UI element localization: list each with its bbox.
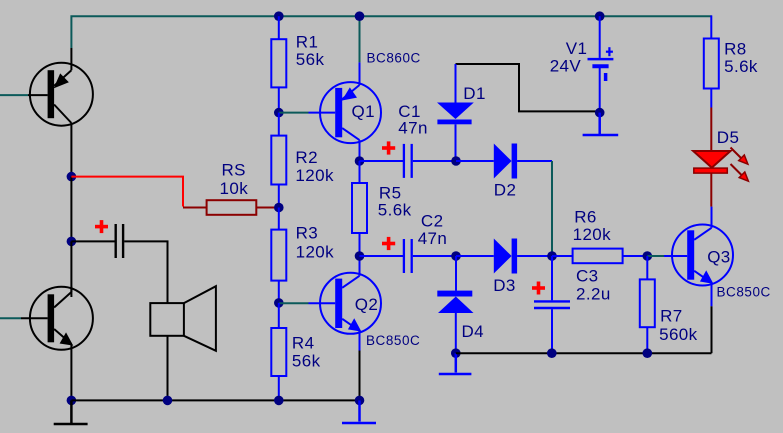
wire cap to speaker (black) bbox=[124, 241, 167, 303]
LED D5 (red/maroon) bbox=[693, 148, 748, 182]
svg-text:5.6k: 5.6k bbox=[378, 201, 412, 220]
wire V1 minus to D1 (black) bbox=[456, 64, 600, 111]
svg-text:24V: 24V bbox=[550, 57, 582, 76]
wire Q2 base (teal) bbox=[279, 302, 309, 304]
polarity plus of C3 (red) bbox=[532, 282, 545, 295]
polarity plus of coupling cap (red) bbox=[95, 220, 108, 233]
svg-text:47n: 47n bbox=[418, 229, 448, 248]
transistor Q2 (NPN, blue) bbox=[309, 256, 382, 351]
svg-text:120k: 120k bbox=[573, 225, 612, 244]
svg-text:C3: C3 bbox=[576, 266, 599, 285]
wire bottom-left ground bus (black) bbox=[71, 399, 359, 401]
wire Q2 emitter to ground bus (black) bbox=[359, 351, 361, 401]
svg-text:Q1: Q1 bbox=[352, 102, 375, 121]
junction R6 / R7 / Q3 base bbox=[643, 251, 653, 261]
capacitor C3 2.2u (blue) bbox=[534, 256, 570, 353]
diode D2 (blue, pointing right) bbox=[494, 144, 517, 179]
svg-text:47n: 47n bbox=[398, 119, 428, 138]
junction C1 / D1 / D2 bbox=[451, 156, 461, 166]
svg-text:R8: R8 bbox=[724, 39, 747, 58]
junction top rail / V1 bbox=[595, 11, 605, 21]
wire Q3 emitter to ground bus (black) bbox=[711, 306, 713, 353]
wire D5 to Q3 collector (maroon) bbox=[710, 173, 712, 207]
svg-text:V1: V1 bbox=[566, 39, 588, 58]
capacitor (electrolytic, black) between T1/T2 node and speaker bbox=[116, 224, 123, 258]
resistor R3 120k (blue) bbox=[271, 208, 286, 303]
svg-text:BC850C: BC850C bbox=[366, 333, 420, 348]
wire Q1 emitter to top rail (teal) bbox=[359, 16, 361, 62]
junction node T2 emitter / ground bus bbox=[67, 396, 77, 406]
junction node T1 collector / red tap bbox=[67, 172, 77, 182]
ground symbol at Q2 emitter (blue) bbox=[342, 400, 376, 423]
svg-text:R1: R1 bbox=[296, 32, 319, 51]
svg-text:R3: R3 bbox=[296, 224, 319, 243]
wire C1 left (blue) bbox=[360, 160, 404, 162]
svg-text:56k: 56k bbox=[292, 351, 321, 370]
svg-text:120k: 120k bbox=[296, 242, 335, 261]
junction R4 / ground bus bbox=[274, 396, 284, 406]
resistor R5 5.6k (blue) bbox=[352, 161, 367, 256]
diode D4 (blue, pointing up) bbox=[437, 256, 473, 353]
svg-text:R6: R6 bbox=[574, 208, 597, 227]
svg-text:D2: D2 bbox=[494, 180, 517, 199]
speaker (black) bbox=[150, 286, 216, 351]
resistor RS 10k (maroon) bbox=[183, 200, 279, 215]
resistor R4 56k (blue) bbox=[271, 303, 286, 401]
junction R1/R2/Q1 base bbox=[274, 108, 284, 118]
capacitor C1 47n (blue) bbox=[404, 144, 412, 178]
junction R2/R3/RS bbox=[274, 203, 284, 213]
svg-text:R2: R2 bbox=[295, 148, 318, 167]
junction Q1 collector / R5 / C1 bbox=[355, 156, 365, 166]
svg-text:5.6k: 5.6k bbox=[724, 57, 758, 76]
svg-text:RS: RS bbox=[222, 161, 246, 180]
wire T1 base (teal) bbox=[0, 94, 28, 96]
wire down to T2 collector (black) bbox=[70, 241, 72, 297]
svg-text:D5: D5 bbox=[717, 128, 740, 147]
junction Q2 emitter / ground bus bbox=[355, 396, 365, 406]
battery V1 24V (blue) bbox=[588, 16, 614, 112]
wire speaker to ground bus (black) bbox=[167, 336, 169, 401]
svg-text:R7: R7 bbox=[660, 307, 683, 326]
svg-text:R4: R4 bbox=[292, 333, 315, 352]
wire right ground bus (black) bbox=[456, 352, 712, 354]
ground symbol at V1 (blue) bbox=[583, 113, 619, 135]
wire D3 to node (blue) bbox=[517, 255, 552, 257]
wire C2 right (blue) bbox=[413, 255, 456, 257]
resistor R2 120k (blue) bbox=[271, 113, 286, 208]
wire feedback (red) from T1 node to RS bbox=[71, 177, 183, 207]
junction top rail / R1 bbox=[274, 11, 284, 21]
junction R7 / ground bus bbox=[643, 348, 653, 358]
svg-text:560k: 560k bbox=[659, 325, 698, 344]
wire corner down to D3 node (teal) bbox=[551, 161, 553, 256]
capacitor C2 47n (blue) bbox=[404, 239, 412, 273]
junction Q2 collector / R5 / C2 bbox=[355, 251, 365, 261]
wire R8 to D5 (maroon) bbox=[710, 108, 712, 152]
svg-text:Q2: Q2 bbox=[355, 295, 378, 314]
resistor R1 56k (blue) bbox=[271, 16, 286, 112]
svg-text:D1: D1 bbox=[463, 84, 486, 103]
resistor R7 560k (blue) bbox=[640, 256, 655, 353]
resistor R8 5.6k (blue) bbox=[704, 15, 719, 107]
transistor T2 (NPN, black) bbox=[21, 287, 93, 401]
svg-text:2.2u: 2.2u bbox=[576, 284, 611, 303]
transistor Q1 (PNP, blue) bbox=[309, 62, 382, 161]
diode D3 (blue, pointing right) bbox=[494, 239, 517, 274]
wire T2 base (teal) bbox=[0, 317, 21, 319]
svg-text:120k: 120k bbox=[295, 166, 334, 185]
svg-text:BC860C: BC860C bbox=[367, 51, 421, 66]
resistor R6 120k (blue, horizontal) bbox=[552, 249, 647, 264]
wire to D2 (blue) bbox=[456, 160, 494, 162]
wire cap row left (black) bbox=[71, 240, 114, 242]
wire C2 left (blue) bbox=[360, 255, 404, 257]
wire node to coupling cap row (black) bbox=[70, 177, 72, 242]
junction D4 / right ground bus bbox=[451, 348, 461, 358]
wire +24V top rail (teal) bbox=[71, 16, 711, 48]
transistor Q3 (NPN, blue) bbox=[664, 207, 733, 307]
wire D2 to corner (blue) bbox=[517, 160, 552, 162]
svg-text:R5: R5 bbox=[379, 183, 402, 202]
svg-text:D4: D4 bbox=[462, 322, 485, 341]
junction C2 / D4 / D3 bbox=[451, 251, 461, 261]
wire Q3 base (teal) bbox=[647, 255, 664, 257]
ground symbol at T2 emitter (black) bbox=[54, 400, 88, 424]
junction D3 / C3 / R6 / D2 net bbox=[547, 251, 557, 261]
junction V1 minus / black wire bbox=[595, 108, 605, 118]
svg-text:10k: 10k bbox=[220, 179, 249, 198]
transistor T1 (PNP, black) bbox=[28, 48, 93, 177]
junction R3/R4/Q2 base bbox=[274, 298, 284, 308]
junction speaker / ground bus bbox=[163, 396, 173, 406]
junction node cap tap bbox=[67, 237, 77, 247]
wire C1 right (blue) bbox=[413, 160, 456, 162]
svg-text:BC850C: BC850C bbox=[717, 284, 771, 299]
svg-text:C2: C2 bbox=[421, 212, 444, 231]
ground symbol at D4 (blue) bbox=[439, 353, 472, 374]
svg-text:56k: 56k bbox=[296, 50, 325, 69]
junction top rail / Q1 bbox=[355, 11, 365, 21]
wire Q1 base (teal) bbox=[279, 112, 309, 114]
diode D1 (blue, pointing down) bbox=[437, 64, 474, 161]
polarity plus of C1 (red) bbox=[382, 141, 395, 154]
junction C3 / ground bus bbox=[547, 348, 557, 358]
polarity plus of C2 (red) bbox=[382, 237, 395, 250]
svg-text:Q3: Q3 bbox=[707, 247, 730, 266]
wire to D3 (blue) bbox=[456, 255, 494, 257]
svg-text:D3: D3 bbox=[493, 276, 516, 295]
